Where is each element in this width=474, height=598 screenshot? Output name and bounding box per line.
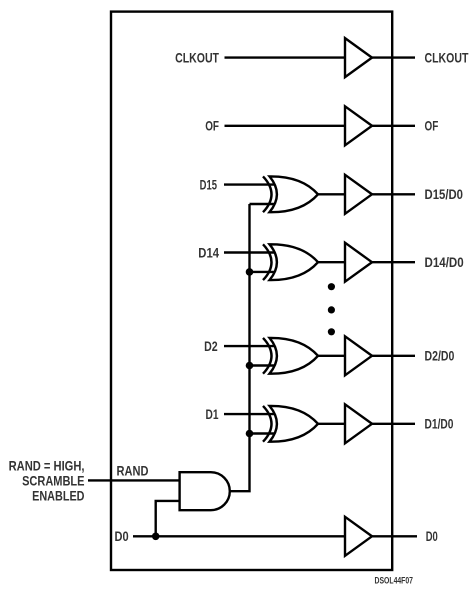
wire AND output to randomizer line — [230, 204, 250, 491]
svg-text:D2/D0: D2/D0 — [425, 348, 455, 364]
buffer XOR2 buf — [345, 336, 372, 375]
wire D15 input — [224, 183, 275, 185]
xor gate XOR14 — [263, 244, 318, 280]
svg-text:D0: D0 — [426, 530, 438, 545]
wire D0 branch to AND input — [156, 501, 180, 536]
svg-text:D1: D1 — [206, 406, 219, 422]
wire CLKOUT buffer input — [225, 56, 347, 58]
buffer XOR1 buf — [345, 404, 372, 443]
xor gate XOR2 — [263, 338, 318, 374]
junction dot XOR1 — [246, 430, 254, 438]
buffer OF buffer — [345, 106, 372, 145]
svg-text:SCRAMBLE: SCRAMBLE — [22, 473, 84, 488]
buffer D0 — [345, 517, 372, 556]
wire xor XOR15 output — [318, 193, 346, 195]
junction dot XOR2 — [246, 362, 254, 370]
svg-text:D15: D15 — [200, 178, 218, 193]
chip outline box — [111, 12, 392, 570]
wire XOR1 output — [371, 423, 415, 425]
wire D0 — [133, 535, 346, 537]
wire xor XOR15 lower input — [250, 203, 276, 205]
svg-text:D15/D0: D15/D0 — [425, 187, 464, 202]
wire OF buffer output — [371, 125, 415, 127]
wire xor XOR14 lower input — [250, 271, 276, 273]
wire D1 input — [224, 413, 275, 415]
wire OF buffer input — [225, 125, 347, 127]
wire XOR2 output — [371, 355, 415, 357]
wire XOR14 output — [371, 261, 415, 263]
buffer CLKOUT buffer — [345, 38, 372, 77]
buffer XOR14 buf — [345, 243, 372, 282]
wire xor XOR14 output — [318, 261, 346, 263]
svg-text:OF: OF — [205, 118, 219, 134]
svg-text:D0: D0 — [115, 529, 129, 544]
svg-text:CLKOUT: CLKOUT — [175, 50, 219, 66]
wire xor XOR1 lower input — [250, 432, 276, 434]
wire xor XOR1 output — [318, 423, 346, 425]
svg-text:D1/D0: D1/D0 — [425, 416, 454, 432]
wire xor XOR2 output — [318, 355, 346, 357]
wire CLKOUT buffer output — [371, 56, 415, 58]
wire D0 output — [371, 535, 417, 537]
wire RAND input — [88, 479, 180, 481]
svg-text:CLKOUT: CLKOUT — [425, 50, 469, 66]
svg-text:D2: D2 — [204, 339, 218, 355]
junction dot D0 — [152, 533, 160, 541]
svg-text:OF: OF — [425, 118, 439, 134]
svg-text:RAND = HIGH,: RAND = HIGH, — [9, 458, 85, 473]
wire D2 input — [224, 345, 275, 347]
svg-text:D14: D14 — [198, 245, 219, 260]
xor gate XOR15 — [263, 176, 318, 212]
buffer XOR15 buf — [345, 175, 372, 214]
wire D14 input — [224, 251, 275, 253]
wire xor XOR2 lower input — [250, 364, 276, 366]
ellipsis dots — [328, 283, 335, 290]
wire XOR15 output — [371, 193, 415, 195]
xor gate XOR1 — [263, 406, 318, 442]
and-gate — [180, 472, 230, 510]
svg-text:DSOL44F07: DSOL44F07 — [375, 576, 414, 586]
svg-text:RAND: RAND — [117, 463, 149, 478]
svg-text:ENABLED: ENABLED — [32, 488, 85, 503]
svg-text:D14/D0: D14/D0 — [425, 255, 464, 270]
junction dot XOR14 — [246, 268, 254, 276]
